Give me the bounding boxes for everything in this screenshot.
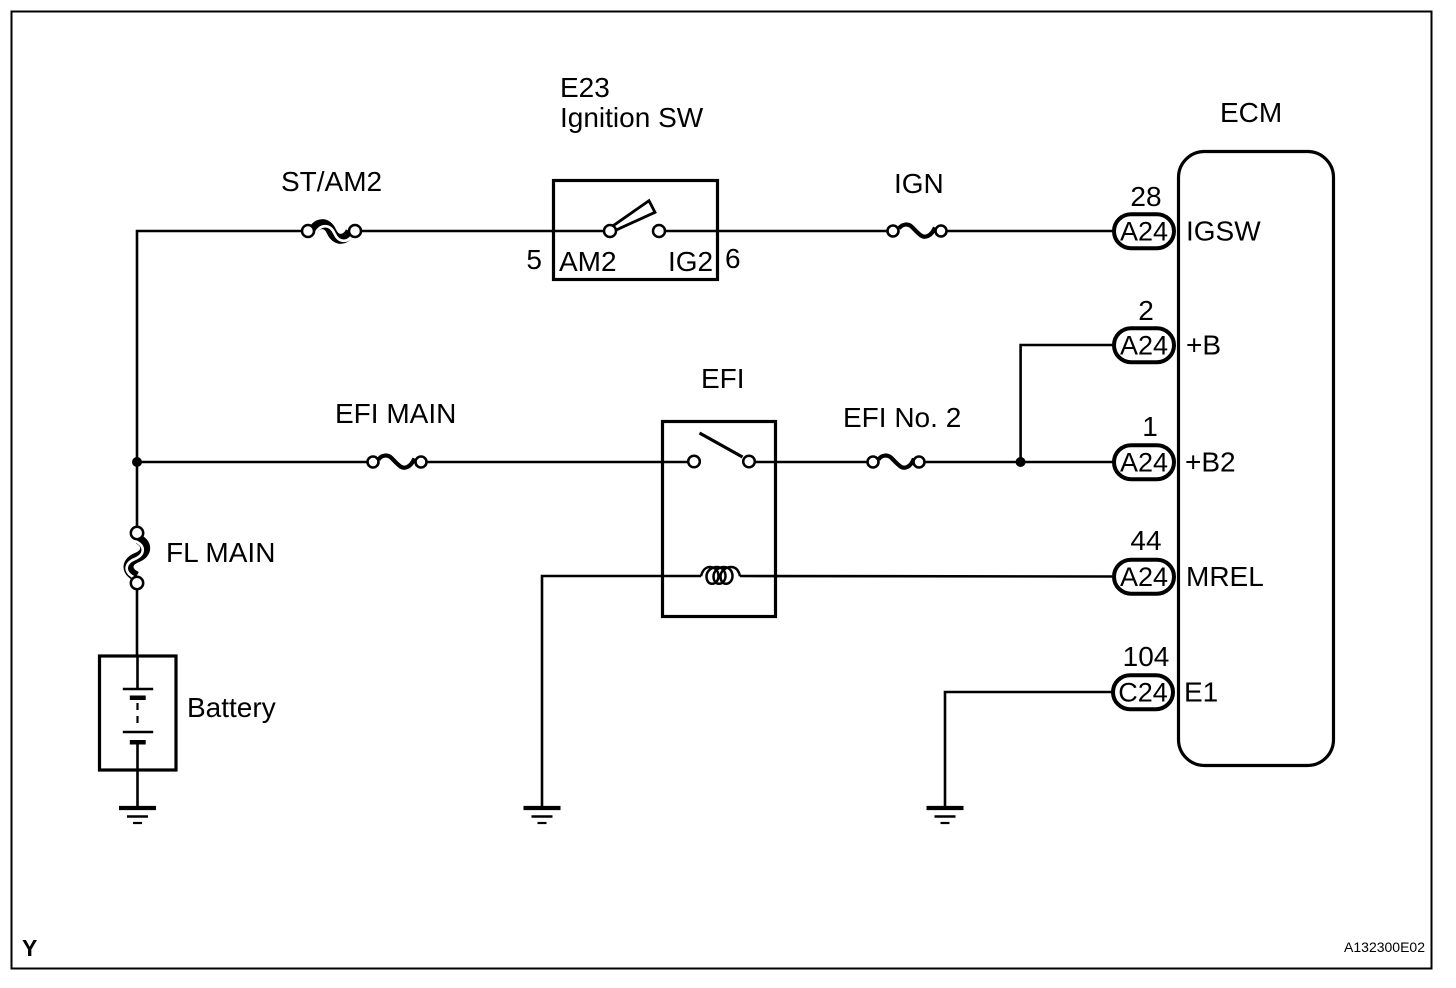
svg-text:MREL: MREL: [1186, 561, 1264, 592]
relay coil: [701, 567, 740, 584]
svg-text:A132300E02: A132300E02: [1344, 939, 1425, 955]
svg-text:FL MAIN: FL MAIN: [166, 537, 275, 568]
svg-text:EFI No. 2: EFI No. 2: [843, 402, 961, 433]
ground (E1): [927, 808, 964, 823]
wire middle bus battery node to EFI relay: [137, 461, 694, 464]
wire IG2 to IGSW: [666, 230, 1115, 233]
relay contact left: [688, 456, 700, 468]
svg-text:IGN: IGN: [894, 168, 944, 199]
svg-text:A24: A24: [1120, 562, 1168, 592]
svg-text:IG2: IG2: [668, 246, 713, 277]
fuse IGN: [888, 225, 947, 237]
connector C24 pin 104 E1: [1113, 675, 1173, 709]
svg-text:C24: C24: [1118, 678, 1168, 708]
svg-text:A24: A24: [1120, 217, 1168, 247]
wire E1 to ground: [945, 692, 1112, 806]
svg-text:AM2: AM2: [559, 246, 617, 277]
svg-text:+B2: +B2: [1185, 447, 1236, 478]
ground (EFI relay coil): [524, 808, 561, 823]
svg-text:A24: A24: [1120, 331, 1168, 361]
connector A24 pin 1 +B2: [1114, 445, 1174, 479]
svg-text:28: 28: [1130, 181, 1161, 212]
svg-text:104: 104: [1123, 641, 1170, 672]
svg-text:E23: E23: [560, 72, 610, 103]
node battery junction: [132, 457, 142, 467]
svg-text:IGSW: IGSW: [1186, 216, 1261, 247]
EFI relay box: [663, 422, 776, 617]
svg-text:1: 1: [1142, 411, 1158, 442]
svg-text:E1: E1: [1184, 677, 1218, 708]
switch lever (ignition): [612, 201, 655, 231]
switch contact IG2: [653, 225, 665, 237]
node junction to +B: [1016, 345, 1114, 467]
wire relay to EFI No.2 fuse: [756, 461, 1115, 464]
fusible link FL MAIN: [127, 527, 146, 589]
ground (battery): [119, 808, 156, 823]
svg-text:Ignition SW: Ignition SW: [560, 102, 704, 133]
ECM box U1: [1179, 152, 1334, 766]
svg-text:+B: +B: [1186, 330, 1221, 361]
battery cell symbol: [123, 656, 153, 806]
svg-text:44: 44: [1130, 525, 1161, 556]
connector A24 pin 2 +B: [1114, 328, 1174, 362]
switch contact AM2: [604, 225, 616, 237]
label E23 / Ignition SW: [560, 72, 704, 133]
svg-text:6: 6: [725, 243, 741, 274]
svg-text:EFI: EFI: [701, 363, 745, 394]
ignition switch E23 box: [554, 181, 718, 280]
svg-text:ST/AM2: ST/AM2: [281, 166, 382, 197]
wire MREL: coil to ECM and to ground: [542, 576, 1112, 806]
fusible link ST/AM2: [302, 224, 361, 241]
connector A24 pin 28 IGSW: [1114, 214, 1174, 248]
connector A24 pin 44 MREL: [1114, 560, 1174, 594]
svg-text:A24: A24: [1120, 448, 1168, 478]
svg-text:Battery: Battery: [187, 692, 276, 723]
relay contact right: [743, 456, 755, 468]
svg-text:EFI MAIN: EFI MAIN: [335, 398, 456, 429]
svg-text:Y: Y: [22, 935, 37, 961]
battery box: [100, 656, 177, 770]
fuse EFI No. 2: [868, 456, 925, 468]
wire battery drop: [136, 462, 139, 656]
svg-text:ECM: ECM: [1220, 97, 1282, 128]
wire top bus from left corner to ignition switch AM2: [137, 231, 610, 462]
svg-text:5: 5: [526, 244, 542, 275]
svg-text:2: 2: [1138, 295, 1154, 326]
fuse EFI MAIN: [368, 456, 427, 468]
relay switch blade: [700, 433, 743, 457]
